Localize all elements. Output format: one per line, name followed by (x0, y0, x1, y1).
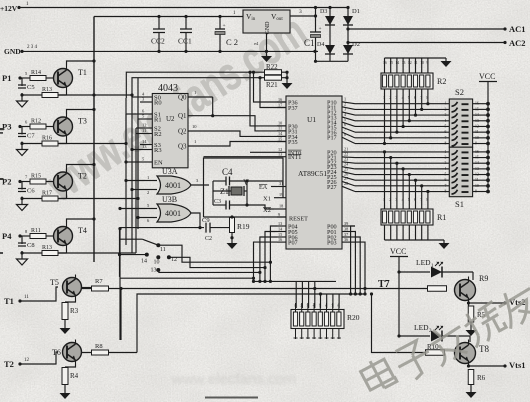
svg-text:11: 11 (160, 247, 166, 253)
svg-text:10: 10 (154, 260, 160, 266)
svg-text:12: 12 (475, 173, 479, 177)
svg-text:S1: S1 (455, 199, 464, 209)
svg-text:2: 2 (445, 107, 447, 111)
svg-text:6: 6 (445, 178, 447, 182)
svg-text:GND: GND (265, 21, 271, 35)
svg-text:P4: P4 (2, 231, 12, 241)
svg-text:VCC: VCC (479, 72, 495, 81)
svg-text:3: 3 (445, 161, 447, 165)
svg-text:C9: C9 (202, 217, 210, 224)
svg-text:R22: R22 (266, 63, 278, 71)
svg-text:Vts1: Vts1 (509, 360, 526, 370)
svg-text:4: 4 (313, 304, 315, 308)
svg-text:14: 14 (141, 259, 147, 265)
svg-text:11: 11 (142, 128, 146, 133)
svg-text:C8: C8 (27, 242, 35, 249)
svg-text:11: 11 (475, 178, 479, 182)
svg-text:2: 2 (300, 304, 302, 308)
svg-text:14: 14 (475, 161, 479, 165)
svg-text:7: 7 (445, 184, 447, 188)
svg-text:11: 11 (24, 295, 29, 300)
svg-text:13: 13 (475, 119, 479, 123)
svg-text:15: 15 (475, 107, 479, 111)
svg-text:R14: R14 (31, 70, 41, 76)
svg-text:T7: T7 (378, 279, 390, 290)
svg-text:1: 1 (147, 175, 149, 180)
svg-text:R16: R16 (42, 136, 52, 142)
svg-text:D4: D4 (317, 42, 324, 48)
svg-text:R20: R20 (347, 313, 360, 322)
svg-text:8: 8 (445, 142, 447, 146)
svg-text:12: 12 (475, 124, 479, 128)
svg-text:R17: R17 (42, 191, 52, 197)
svg-text:7: 7 (445, 136, 447, 140)
svg-text:R13: R13 (42, 87, 52, 93)
svg-text:7: 7 (331, 304, 333, 308)
svg-text:CC1: CC1 (178, 37, 192, 46)
svg-text:R1: R1 (437, 213, 446, 222)
svg-text:R2: R2 (154, 131, 162, 138)
svg-text:R2: R2 (437, 77, 446, 86)
svg-text:T8: T8 (479, 344, 489, 354)
svg-text:3: 3 (299, 9, 302, 15)
svg-text:T1: T1 (4, 296, 14, 306)
svg-text:3: 3 (306, 304, 308, 308)
svg-text:Q2: Q2 (178, 128, 187, 136)
svg-text:11: 11 (278, 126, 282, 131)
svg-text:LED: LED (416, 258, 431, 267)
svg-text:R19: R19 (237, 222, 250, 231)
svg-text:R9: R9 (479, 274, 488, 283)
svg-text:4001: 4001 (165, 181, 181, 190)
svg-text:P37: P37 (288, 105, 298, 112)
svg-text:T3: T3 (78, 117, 87, 126)
svg-text:www.elecfans.com: www.elecfans.com (171, 371, 296, 388)
svg-text:13: 13 (278, 221, 282, 226)
svg-text:13: 13 (475, 167, 479, 171)
svg-text:INT1: INT1 (288, 154, 301, 161)
svg-text:R6: R6 (477, 374, 486, 382)
svg-text:EA: EA (259, 184, 268, 191)
svg-text:2 3 4: 2 3 4 (27, 45, 38, 50)
svg-text:P1: P1 (2, 73, 11, 83)
svg-text:6: 6 (325, 304, 327, 308)
svg-text:e4: e4 (254, 41, 259, 46)
svg-text:5: 5 (445, 173, 447, 177)
svg-text:EN: EN (154, 160, 163, 167)
svg-text:R1: R1 (154, 117, 162, 124)
svg-text:17: 17 (278, 102, 282, 107)
svg-text:13: 13 (278, 152, 282, 157)
svg-text:C1: C1 (304, 38, 315, 48)
svg-text:C7: C7 (27, 133, 35, 140)
svg-text:AC2: AC2 (509, 38, 526, 48)
svg-text:Q3: Q3 (178, 143, 187, 151)
svg-text:R8: R8 (95, 343, 103, 350)
svg-text:LED: LED (414, 323, 429, 332)
svg-text:C2: C2 (205, 236, 212, 242)
svg-text:C4: C4 (222, 167, 233, 177)
svg-text:4: 4 (445, 119, 447, 123)
svg-text:D3: D3 (320, 9, 327, 15)
svg-text:U3B: U3B (162, 195, 177, 204)
svg-text:39: 39 (344, 221, 348, 226)
svg-text:10: 10 (192, 124, 197, 129)
svg-text:8: 8 (445, 190, 447, 194)
svg-text:14: 14 (475, 113, 479, 117)
svg-text:R4: R4 (70, 372, 79, 380)
svg-text:4001: 4001 (165, 209, 181, 218)
svg-text:4043: 4043 (158, 83, 178, 94)
svg-text:11: 11 (475, 130, 479, 134)
svg-text:31: 31 (279, 181, 283, 186)
svg-text:X1: X1 (263, 196, 271, 203)
svg-text:10: 10 (475, 184, 479, 188)
svg-text:AT89C51: AT89C51 (298, 169, 327, 178)
svg-text:12: 12 (171, 257, 177, 263)
svg-text:15: 15 (278, 136, 282, 141)
svg-text:15: 15 (475, 156, 479, 160)
svg-text:16: 16 (475, 150, 479, 154)
svg-text:C3: C3 (214, 199, 221, 205)
svg-text:9: 9 (475, 190, 477, 194)
svg-text:P35: P35 (288, 139, 298, 146)
svg-text:R0: R0 (154, 100, 162, 107)
svg-text:R21: R21 (266, 81, 278, 89)
svg-text:4: 4 (445, 167, 447, 171)
svg-text:1: 1 (194, 90, 196, 95)
svg-text:16: 16 (475, 102, 479, 106)
svg-text:5: 5 (445, 124, 447, 128)
svg-text:36: 36 (344, 237, 348, 242)
svg-text:5: 5 (319, 304, 321, 308)
svg-text:3: 3 (445, 113, 447, 117)
svg-text:R3: R3 (154, 147, 162, 154)
svg-text:C 2: C 2 (226, 37, 238, 47)
svg-text:+12V: +12V (0, 4, 18, 13)
svg-text:+: + (223, 23, 226, 29)
svg-text:+: + (319, 26, 322, 32)
svg-text:RESET: RESET (289, 216, 308, 223)
svg-text:8: 8 (344, 132, 346, 137)
svg-text:P07: P07 (288, 240, 298, 247)
svg-text:12: 12 (24, 358, 30, 363)
svg-text:1: 1 (445, 150, 447, 154)
svg-text:1: 1 (194, 139, 196, 144)
svg-text:2: 2 (445, 156, 447, 160)
svg-text:13: 13 (151, 268, 157, 274)
svg-text:38: 38 (344, 226, 348, 231)
svg-text:T2: T2 (4, 359, 14, 369)
svg-text:T4: T4 (78, 226, 87, 235)
svg-text:U2: U2 (166, 115, 175, 123)
svg-text:R12: R12 (31, 119, 41, 125)
svg-text:C6: C6 (27, 188, 35, 195)
svg-text:R11: R11 (31, 228, 41, 234)
svg-text:28: 28 (344, 181, 348, 186)
svg-text:18: 18 (279, 204, 283, 209)
svg-text:13: 13 (142, 144, 147, 149)
svg-text:T5: T5 (50, 278, 59, 287)
svg-text:P03: P03 (327, 240, 337, 247)
svg-text:R13: R13 (42, 245, 52, 251)
svg-text:D1: D1 (352, 8, 360, 15)
svg-text:S2: S2 (455, 87, 464, 97)
svg-text:T1: T1 (78, 68, 87, 77)
svg-text:U1: U1 (307, 115, 316, 124)
svg-text:12: 12 (142, 123, 147, 128)
svg-text:Q1: Q1 (178, 112, 187, 120)
svg-text:X2: X2 (263, 207, 271, 214)
svg-text:16: 16 (278, 97, 282, 102)
svg-text:19: 19 (279, 192, 283, 197)
svg-text:T2: T2 (78, 172, 87, 181)
svg-text:1: 1 (445, 102, 447, 106)
svg-text:C5: C5 (27, 84, 35, 91)
svg-text:8: 8 (337, 304, 339, 308)
svg-text:9: 9 (278, 212, 280, 217)
svg-text:10: 10 (475, 136, 479, 140)
svg-text:Q0: Q0 (178, 94, 187, 102)
svg-text:R3: R3 (70, 307, 79, 315)
svg-text:2: 2 (147, 190, 149, 195)
svg-text:CC2: CC2 (151, 37, 165, 46)
svg-text:9: 9 (475, 142, 477, 146)
svg-text:VCC: VCC (390, 247, 406, 256)
svg-text:R15: R15 (31, 174, 41, 180)
svg-text:16: 16 (278, 237, 282, 242)
svg-text:1: 1 (294, 304, 296, 308)
svg-text:U3A: U3A (162, 167, 178, 176)
svg-text:T6: T6 (52, 348, 61, 357)
svg-text:AC1: AC1 (509, 24, 526, 34)
svg-text:P17: P17 (327, 135, 337, 142)
svg-text:R7: R7 (95, 278, 103, 285)
svg-text:GND: GND (4, 47, 21, 56)
svg-text:P27: P27 (327, 184, 337, 191)
svg-text:6: 6 (445, 130, 447, 134)
